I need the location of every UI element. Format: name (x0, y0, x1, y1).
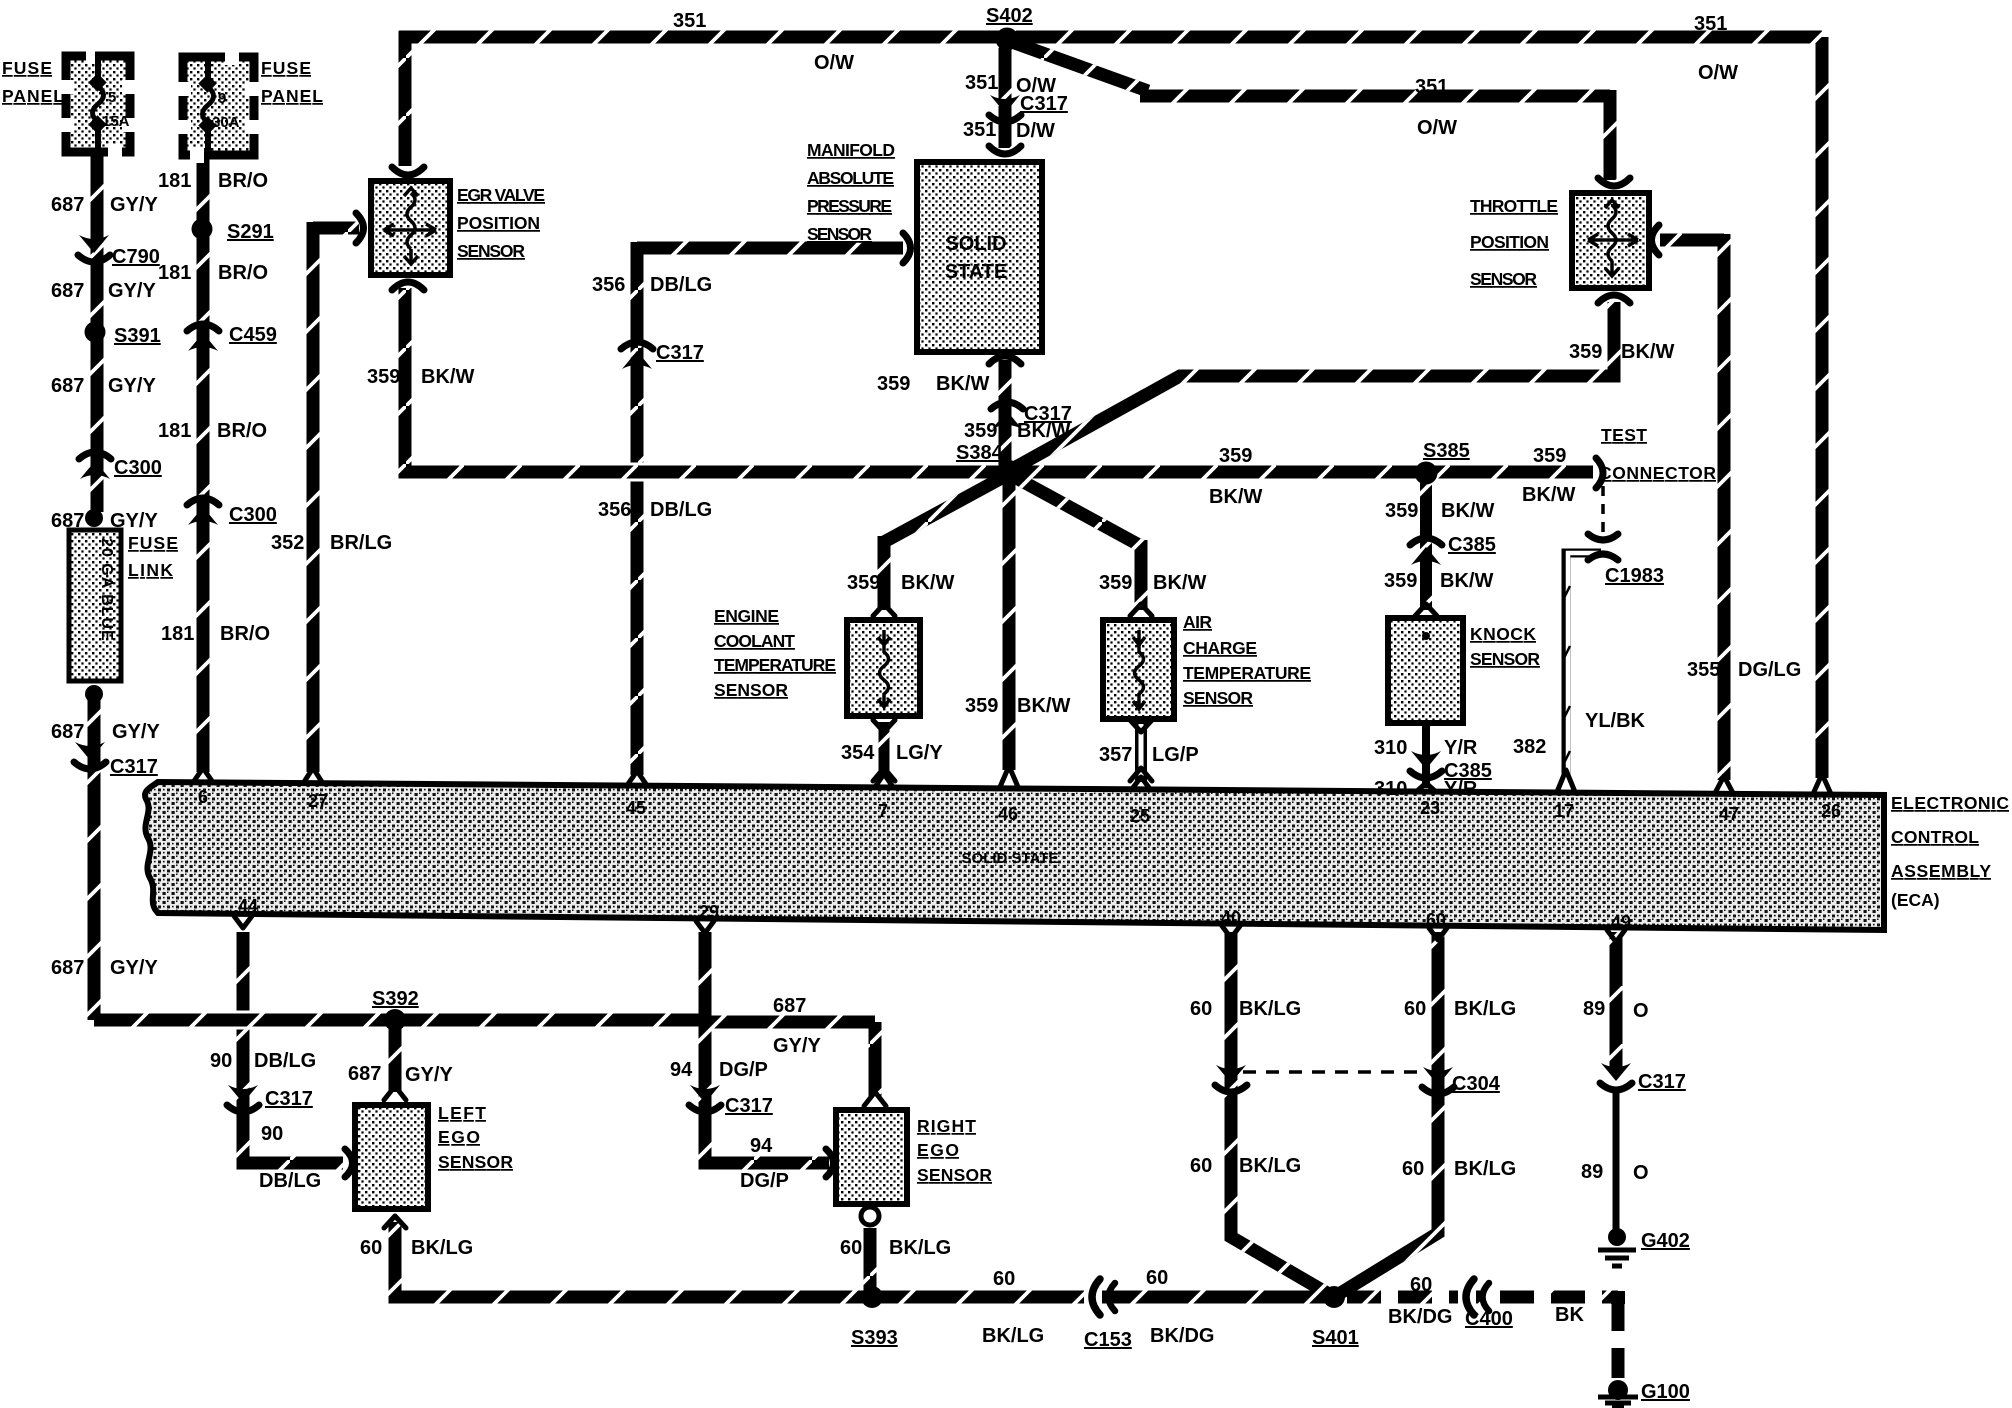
fuse symbol in fuse panel 2 (198, 59, 239, 157)
svg-text:30A: 30A (212, 114, 240, 131)
splice S402 (996, 28, 1019, 51)
ECA pin 49 prong (1607, 930, 1625, 942)
svg-text:DG/P: DG/P (719, 1059, 768, 1081)
svg-text:5: 5 (108, 89, 116, 106)
ECA pin 25 prong (1132, 777, 1150, 789)
ECA pin 44 prong (234, 916, 252, 928)
svg-text:BK/W: BK/W (936, 373, 989, 395)
svg-text:LG/P: LG/P (1152, 744, 1199, 766)
svg-text:40: 40 (1221, 908, 1241, 928)
svg-text:SENSOR: SENSOR (1470, 269, 1537, 289)
svg-text:S392: S392 (372, 988, 419, 1010)
svg-text:60: 60 (1404, 998, 1426, 1020)
svg-text:ENGINE: ENGINE (714, 606, 779, 626)
EGR bottom connector cup (392, 282, 424, 290)
ECA pin 7 prong (875, 774, 893, 787)
svg-text:SENSOR: SENSOR (807, 224, 872, 244)
svg-text:94: 94 (750, 1135, 773, 1157)
svg-text:O/W: O/W (1698, 62, 1738, 84)
svg-text:359: 359 (367, 366, 400, 388)
svg-text:687: 687 (51, 375, 84, 397)
wire 355 DG/LG from TPS right side down to ECA pin 47 (1660, 234, 1724, 780)
connector C317 symbol on left 687 wire (74, 742, 106, 769)
svg-text:C304: C304 (1452, 1073, 1501, 1095)
svg-text:354: 354 (841, 742, 875, 764)
ECT top connector prongs (873, 604, 895, 616)
svg-text:C317: C317 (725, 1095, 773, 1117)
svg-text:90: 90 (261, 1123, 283, 1145)
ECA pin 6 prong (194, 768, 212, 781)
svg-text:60: 60 (993, 1268, 1015, 1290)
wire 359 BK/W from TPS bottom left along y376 diagonal to S384 (1005, 302, 1614, 473)
svg-text:C400: C400 (1465, 1308, 1513, 1330)
svg-text:PANEL: PANEL (2, 86, 64, 106)
svg-text:C1983: C1983 (1605, 565, 1664, 587)
connector C300 symbol on 181 wire (187, 498, 219, 525)
svg-text:687: 687 (51, 957, 84, 979)
svg-text:C317: C317 (265, 1088, 313, 1110)
svg-text:60: 60 (1190, 1155, 1212, 1177)
svg-text:27: 27 (308, 791, 328, 811)
wire 90 DB/LG from ECA pin 44 down through C317 to left EGO sensor (243, 932, 343, 1163)
svg-text:C385: C385 (1448, 534, 1496, 556)
wire hatch overlay white slashes (94, 31, 1822, 1297)
wire 94 DG/P from ECA pin 29 down through C317 to right EGO sensor left side (705, 932, 829, 1163)
wire 687 GY/Y from fuse link down through C317 to S392 horizontal (88, 697, 101, 1020)
svg-text:S391: S391 (114, 325, 161, 347)
wire 687 GY/Y left chain from fuse panel through C790 S391 C300 to fuse link (91, 155, 104, 512)
ECA pin 40 prong (1222, 926, 1240, 938)
svg-text:S384: S384 (956, 442, 1004, 464)
fuse link box 20 GA BLUE (69, 530, 121, 681)
wire 359 BK/W from S385 down through C385 to knock sensor (1420, 474, 1432, 610)
fuse symbol in fuse panel 1 (88, 58, 129, 154)
svg-text:SENSOR: SENSOR (438, 1152, 513, 1172)
MAP left connector cup (903, 233, 911, 263)
dashed wire corner fill at G100 riser (1611, 1291, 1625, 1304)
right EGO bottom connector ring (861, 1207, 879, 1225)
connector C790 symbol (78, 235, 110, 262)
svg-text:GY/Y: GY/Y (405, 1064, 453, 1086)
svg-text:COOLANT: COOLANT (714, 631, 795, 651)
splice dot below fuse link (85, 685, 103, 703)
wire 60 BK/LG from ECA pin 40 down through C304 diagonal to S401 (1231, 932, 1334, 1297)
svg-text:90: 90 (210, 1050, 232, 1072)
svg-text:SOLID STATE: SOLID STATE (962, 850, 1059, 867)
svg-text:351: 351 (965, 72, 998, 94)
svg-text:181: 181 (158, 420, 191, 442)
svg-text:BK/W: BK/W (901, 572, 954, 594)
connector C317 symbol on pin 44 wire (227, 1085, 259, 1112)
svg-text:46: 46 (998, 804, 1018, 824)
svg-text:ASSEMBLY: ASSEMBLY (1891, 861, 1991, 881)
svg-text:C317: C317 (1020, 93, 1068, 115)
svg-text:O: O (1633, 1000, 1649, 1022)
svg-text:PANEL: PANEL (261, 86, 323, 106)
svg-text:DG/P: DG/P (740, 1170, 789, 1192)
svg-text:KNOCK: KNOCK (1470, 624, 1536, 644)
svg-text:20 GA BLUE: 20 GA BLUE (98, 538, 115, 642)
svg-text:EGO: EGO (438, 1127, 480, 1147)
svg-text:94: 94 (670, 1059, 693, 1081)
svg-text:BR/O: BR/O (220, 623, 270, 645)
ECA pin 45 prong (628, 771, 646, 784)
splice dot above fuse link (85, 509, 103, 527)
air charge temperature sensor box (1103, 620, 1174, 719)
svg-text:BK/W: BK/W (1441, 500, 1494, 522)
svg-text:357: 357 (1099, 744, 1132, 766)
svg-text:359: 359 (1385, 500, 1418, 522)
connector C385 symbol below S385 (1410, 538, 1442, 565)
svg-text:45: 45 (626, 798, 646, 818)
EGR valve position sensor box (371, 181, 450, 275)
svg-text:60: 60 (1426, 910, 1446, 930)
svg-text:60: 60 (360, 1237, 382, 1259)
wire 89 O lower thin segment to ground G402 (1613, 1090, 1620, 1230)
svg-text:382: 382 (1513, 736, 1546, 758)
svg-text:TEMPERATURE: TEMPERATURE (1183, 663, 1311, 683)
svg-text:LINK: LINK (128, 560, 173, 580)
wire 352 BR/LG from EGR left side to ECA pin 27 (313, 222, 359, 772)
svg-text:BK/W: BK/W (1522, 484, 1575, 506)
svg-text:310: 310 (1374, 737, 1407, 759)
ACT bottom connector prongs (1130, 720, 1152, 781)
connector C153 symbol on bottom run (1084, 1279, 1115, 1315)
svg-text:BK/LG: BK/LG (1454, 998, 1516, 1020)
svg-text:351: 351 (673, 10, 706, 32)
connector C317 symbol on MAP bottom wire (991, 402, 1023, 429)
svg-text:S291: S291 (227, 221, 274, 243)
svg-text:BK/W: BK/W (1621, 341, 1674, 363)
svg-text:S402: S402 (986, 5, 1033, 27)
wire 351 O/W top run from EGR corner to S402 to right edge, down to ECA pin 26 (399, 37, 1822, 778)
splice S384 (998, 460, 1020, 482)
svg-text:9: 9 (218, 90, 226, 107)
splice S401 (1323, 1286, 1345, 1308)
svg-text:G402: G402 (1641, 1230, 1690, 1252)
svg-text:351: 351 (1415, 76, 1448, 98)
wire 357 LG/P hollow stub from ACT sensor to ECA pin 25 (1135, 722, 1147, 782)
ECA pin 47 prong (1715, 776, 1733, 793)
svg-text:G100: G100 (1641, 1381, 1690, 1403)
tick marks on YL/BK hollow wire (1563, 586, 1570, 765)
wire 687 GY/Y horizontal run to S392 and junction with pin 29 wire (94, 1014, 705, 1027)
svg-text:DB/LG: DB/LG (254, 1050, 316, 1072)
ACT top connector prongs (1130, 604, 1152, 616)
svg-text:O/W: O/W (1417, 117, 1457, 139)
svg-text:23: 23 (1420, 798, 1440, 818)
svg-text:GY/Y: GY/Y (110, 510, 158, 532)
right EGO top connector prongs (864, 1092, 886, 1106)
svg-text:C317: C317 (656, 342, 704, 364)
svg-text:359: 359 (1569, 341, 1602, 363)
svg-text:687: 687 (51, 510, 84, 532)
wire 181 BR/O chain from fuse panel through S291 C459 C300 to ECA pin 6 (197, 158, 210, 772)
wire 60 BK/LG from left EGO sensor bottom along bottom run to S401 (395, 1222, 1334, 1297)
svg-text:D/W: D/W (1016, 120, 1055, 142)
svg-text:25: 25 (1130, 806, 1150, 826)
wire 60 BK/DG and BK dashed run from S401 through C400 to ground G100 (1347, 1297, 1618, 1378)
white casing break of 356 wire at non-connecting crossing (616, 463, 658, 482)
svg-text:BK/W: BK/W (1440, 570, 1493, 592)
svg-text:310: 310 (1374, 778, 1407, 800)
svg-text:89: 89 (1581, 1161, 1603, 1183)
svg-text:EGO: EGO (917, 1140, 959, 1160)
ECA pin 17 prong (1557, 770, 1575, 792)
white casing break of pin 44 wire at non-connecting crossing (226, 1011, 262, 1030)
svg-text:DB/LG: DB/LG (650, 499, 712, 521)
wire 354 LG/Y stub from ECT sensor to ECA pin 7 (879, 722, 890, 778)
wire 356 DB/LG from MAP left side down through C317 to ECA pin 45 (637, 242, 903, 775)
svg-text:C790: C790 (112, 246, 160, 268)
right EGO left connector cup (826, 1149, 834, 1177)
dashed connector line C304 between pin 40 and pin 60 wires (1243, 1070, 1424, 1074)
connector C300 symbol on left chain (79, 452, 111, 479)
svg-text:RIGHT: RIGHT (917, 1116, 976, 1136)
svg-text:15A: 15A (102, 113, 130, 130)
svg-text:359: 359 (1384, 570, 1417, 592)
svg-text:MANIFOLD: MANIFOLD (807, 140, 895, 160)
svg-text:687: 687 (51, 721, 84, 743)
ground G402 (1598, 1228, 1636, 1266)
ECA pin 60 prong (1429, 928, 1447, 940)
wire 359 BK/W from S384 down to ECA pin 46 (1003, 472, 1016, 770)
svg-text:PRESSURE: PRESSURE (807, 196, 892, 216)
svg-text:POSITION: POSITION (457, 213, 540, 233)
svg-text:181: 181 (158, 170, 191, 192)
svg-text:359: 359 (1099, 572, 1132, 594)
svg-text:C153: C153 (1084, 1329, 1132, 1351)
wire 687 GY/Y branch from pin 29 junction to right EGO sensor top (705, 1022, 875, 1098)
svg-text:THROTTLE: THROTTLE (1470, 196, 1558, 216)
svg-text:60: 60 (1190, 998, 1212, 1020)
svg-text:BK/LG: BK/LG (1239, 998, 1301, 1020)
svg-text:O: O (1633, 1162, 1649, 1184)
svg-text:687: 687 (773, 995, 806, 1017)
right EGO sensor box (836, 1110, 907, 1204)
svg-text:60: 60 (1146, 1267, 1168, 1289)
svg-text:S401: S401 (1312, 1327, 1359, 1349)
svg-text:YL/BK: YL/BK (1585, 710, 1646, 732)
svg-text:BK/W: BK/W (421, 366, 474, 388)
svg-text:TEST: TEST (1601, 425, 1647, 445)
svg-text:GY/Y: GY/Y (108, 280, 156, 302)
svg-text:SENSOR: SENSOR (714, 680, 788, 700)
svg-text:BK/DG: BK/DG (1388, 1306, 1452, 1328)
svg-text:CHARGE: CHARGE (1183, 638, 1257, 658)
connector C317 symbol on 356 wire (621, 342, 653, 369)
svg-text:SENSOR: SENSOR (1183, 688, 1253, 708)
svg-text:351: 351 (1694, 13, 1727, 35)
svg-text:BK/LG: BK/LG (889, 1237, 951, 1259)
fuse panel 2 box (175, 49, 262, 163)
wire 310 Y/R stubs from knock sensor through C385 to ECA pin 23 (1422, 726, 1430, 788)
svg-text:BK/W: BK/W (1017, 695, 1070, 717)
svg-text:SENSOR: SENSOR (457, 241, 525, 261)
wire 359 BK/W diagonal from S384 to air charge temperature sensor (1009, 474, 1141, 610)
wire 351 O/W diagonal from S402 then horizontal to throttle position sensor drop (1012, 42, 1610, 180)
svg-text:GY/Y: GY/Y (110, 194, 158, 216)
svg-text:C317: C317 (1638, 1071, 1686, 1093)
svg-text:356: 356 (592, 274, 625, 296)
connector C1983 symbol (1588, 534, 1618, 560)
svg-text:C300: C300 (229, 504, 277, 526)
svg-text:60: 60 (840, 1237, 862, 1259)
TPS bottom connector cup (1598, 295, 1630, 303)
svg-text:GY/Y: GY/Y (773, 1035, 821, 1057)
svg-text:GY/Y: GY/Y (108, 375, 156, 397)
ECA pin 29 prong (696, 921, 714, 933)
throttle position sensor box (1572, 193, 1649, 288)
svg-text:DB/LG: DB/LG (650, 274, 712, 296)
svg-text:SENSOR: SENSOR (1470, 649, 1540, 669)
connector C317 symbol on pin 29 wire (689, 1085, 721, 1112)
svg-text:BR/O: BR/O (217, 420, 267, 442)
svg-text:BK: BK (1555, 1304, 1584, 1326)
svg-text:89: 89 (1583, 998, 1605, 1020)
MAP bottom connector prongs (989, 356, 1021, 364)
left EGO bottom connector prongs (384, 1216, 406, 1228)
svg-text:TEMPERATURE: TEMPERATURE (714, 655, 836, 675)
engine coolant temperature sensor box (847, 620, 920, 716)
left EGO sensor box (355, 1105, 428, 1209)
svg-text:60: 60 (1410, 1274, 1432, 1296)
svg-text:359: 359 (877, 373, 910, 395)
svg-text:Y/R: Y/R (1444, 778, 1478, 800)
wire 382 YL/BK hollow from C1983 down to ECA pin 17 (1566, 553, 1601, 774)
wire 359 BK/W from EGR bottom down and long horizontal run to test connector (405, 288, 1593, 472)
splice S393 (861, 1286, 883, 1308)
svg-text:CONTROL: CONTROL (1891, 827, 1979, 847)
svg-text:C459: C459 (229, 324, 277, 346)
svg-text:359: 359 (847, 572, 880, 594)
svg-text:BR/O: BR/O (218, 262, 268, 284)
connector C459 symbol (187, 324, 219, 351)
dashed test connector lead (1601, 486, 1605, 534)
svg-text:EGR VALVE: EGR VALVE (457, 185, 545, 205)
ECT bottom connector prongs (873, 720, 895, 781)
electronic control assembly ECA solid state box (145, 782, 1884, 930)
svg-text:LG/Y: LG/Y (896, 742, 943, 764)
svg-text:359: 359 (1219, 445, 1252, 467)
left EGO left connector cup (345, 1149, 353, 1177)
svg-text:GY/Y: GY/Y (112, 721, 160, 743)
wire 351 O/W stub from top corner down to EGR valve position sensor (399, 31, 412, 166)
svg-text:359: 359 (964, 420, 997, 442)
ECA pin 27 prong (304, 768, 322, 782)
svg-text:49: 49 (1611, 912, 1631, 932)
svg-text:BR/O: BR/O (218, 170, 268, 192)
svg-text:687: 687 (348, 1063, 381, 1085)
connector C317 symbol below S402 (989, 95, 1021, 122)
svg-text:687: 687 (51, 280, 84, 302)
svg-text:ABSOLUTE: ABSOLUTE (807, 168, 894, 188)
svg-text:355: 355 (1687, 659, 1720, 681)
svg-text:ELECTRONIC: ELECTRONIC (1891, 793, 2009, 813)
left EGO top connector prongs (384, 1086, 406, 1100)
wire 351 O/W / 351 D/W from splice S402 down through C317 to MAP sensor (999, 41, 1012, 148)
svg-text:181: 181 (158, 262, 191, 284)
svg-text:351: 351 (963, 119, 996, 141)
splice S392 (384, 1009, 406, 1031)
svg-text:29: 29 (699, 902, 719, 922)
svg-text:7: 7 (878, 801, 888, 821)
wire 687 GY/Y from S392 down to left EGO sensor (389, 1020, 402, 1092)
splice S291 (192, 219, 213, 240)
svg-text:POSITION: POSITION (1470, 232, 1549, 252)
svg-text:BK/LG: BK/LG (1239, 1155, 1301, 1177)
svg-text:687: 687 (51, 194, 84, 216)
knock sensor box (1388, 618, 1463, 723)
ECA pin 46 prong (1000, 766, 1018, 787)
svg-text:17: 17 (1554, 801, 1574, 821)
svg-text:FUSE: FUSE (2, 58, 52, 78)
TPS top connector cup (1598, 178, 1630, 186)
connector C400 symbol on dashed run (1458, 1279, 1489, 1315)
wire 60 BK/LG from ECA pin 60 down through C304 diagonal to S401 (1334, 932, 1438, 1297)
test connector terminal cup (1596, 458, 1603, 488)
svg-text:60: 60 (1402, 1158, 1424, 1180)
MAP top connector prongs (989, 146, 1021, 154)
svg-text:356: 356 (598, 499, 631, 521)
wire 89 O from ECA pin 49 down through C317 (1610, 932, 1623, 1068)
svg-text:47: 47 (1719, 804, 1739, 824)
svg-text:BK/LG: BK/LG (982, 1325, 1044, 1347)
svg-text:BK/W: BK/W (1209, 486, 1262, 508)
TPS right connector cup (1652, 225, 1660, 255)
svg-text:S385: S385 (1423, 440, 1470, 462)
svg-text:(ECA): (ECA) (1891, 890, 1940, 910)
splice S391 (85, 322, 106, 343)
svg-text:DG/LG: DG/LG (1738, 659, 1801, 681)
EGR left connector cup (356, 213, 364, 243)
ECA pin 26 prong (1813, 774, 1831, 794)
svg-text:BK/W: BK/W (1153, 572, 1206, 594)
wire 359 BK/W from MAP bottom through C317 to S384 (999, 360, 1012, 470)
svg-text:GY/Y: GY/Y (110, 957, 158, 979)
svg-text:BR/LG: BR/LG (330, 532, 392, 554)
wire 60 BK/LG from right EGO sensor bottom down to S393 (864, 1228, 877, 1292)
svg-text:STATE: STATE (945, 261, 1008, 283)
svg-text:C317: C317 (110, 756, 158, 778)
wire 359 BK/W diagonal from S384 to engine coolant temperature sensor (884, 474, 1009, 610)
connector C385 symbol below knock sensor (1410, 751, 1442, 778)
svg-text:Y/R: Y/R (1444, 737, 1478, 759)
svg-text:FUSE: FUSE (261, 58, 311, 78)
manifold absolute pressure sensor box (917, 162, 1042, 352)
svg-text:BK/W: BK/W (1017, 420, 1070, 442)
svg-text:181: 181 (161, 623, 194, 645)
svg-text:SENSOR: SENSOR (917, 1165, 992, 1185)
svg-text:6: 6 (198, 787, 208, 807)
EGR top connector cup (392, 167, 424, 175)
svg-text:44: 44 (238, 896, 258, 916)
connector C304 symbol on pin 40 wire (1215, 1065, 1247, 1092)
svg-text:C300: C300 (114, 457, 162, 479)
connector C317 symbol on pin 49 wire (1600, 1063, 1632, 1090)
svg-text:359: 359 (1533, 445, 1566, 467)
svg-text:BK/LG: BK/LG (1454, 1158, 1516, 1180)
svg-text:359: 359 (965, 695, 998, 717)
svg-text:S393: S393 (851, 1327, 898, 1349)
fuse panel 1 box (58, 48, 138, 160)
connector C304 symbol on pin 60 wire (1422, 1067, 1454, 1094)
svg-text:DB/LG: DB/LG (259, 1170, 321, 1192)
svg-text:BK/LG: BK/LG (411, 1237, 473, 1259)
svg-text:SOLID: SOLID (945, 233, 1006, 255)
svg-text:FUSE: FUSE (128, 533, 178, 553)
knock sensor top connector prongs (1415, 604, 1437, 616)
